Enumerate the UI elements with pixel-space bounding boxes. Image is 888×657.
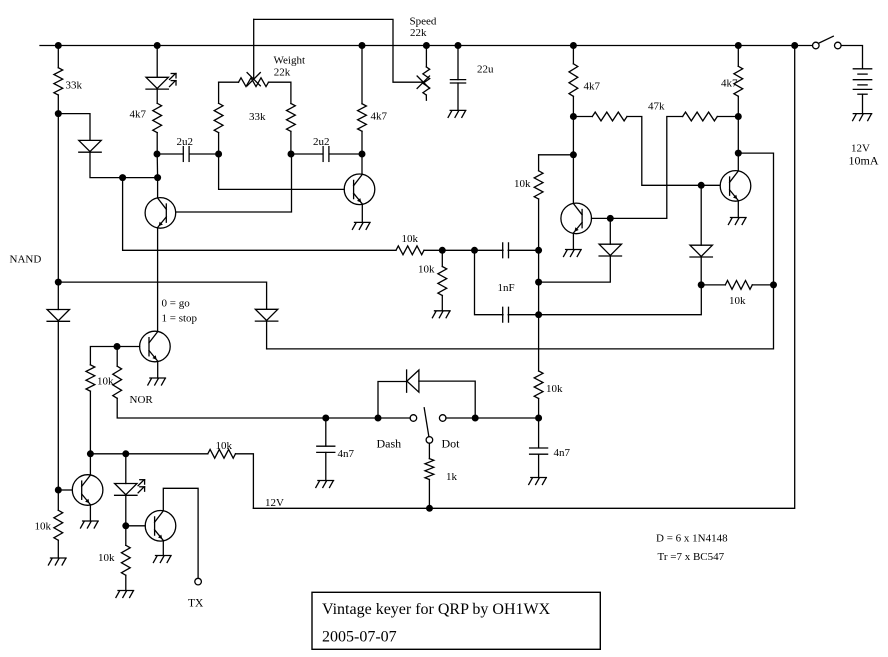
svg-text:10k: 10k <box>98 552 115 564</box>
svg-text:2u2: 2u2 <box>177 136 194 148</box>
svg-text:NOR: NOR <box>130 394 154 406</box>
svg-text:22u: 22u <box>477 64 494 76</box>
svg-text:10k: 10k <box>729 295 746 307</box>
svg-text:Tr =7 x BC547: Tr =7 x BC547 <box>658 551 725 563</box>
svg-text:4n7: 4n7 <box>554 447 571 459</box>
svg-text:12V: 12V <box>265 497 284 509</box>
svg-text:Dash: Dash <box>377 437 402 451</box>
svg-text:4k7: 4k7 <box>371 111 388 123</box>
svg-text:1k: 1k <box>446 471 458 483</box>
svg-text:2005-07-07: 2005-07-07 <box>322 629 397 646</box>
svg-text:10k: 10k <box>514 178 531 190</box>
svg-text:1 = stop: 1 = stop <box>162 313 198 325</box>
svg-text:Weight: Weight <box>274 55 306 67</box>
svg-text:10k: 10k <box>402 233 419 245</box>
svg-text:NAND: NAND <box>10 254 42 266</box>
svg-text:33k: 33k <box>249 111 266 123</box>
svg-text:10k: 10k <box>35 521 52 533</box>
svg-text:10k: 10k <box>418 264 435 276</box>
svg-text:4n7: 4n7 <box>338 448 355 460</box>
svg-text:Vintage keyer for QRP by OH1WX: Vintage keyer for QRP by OH1WX <box>322 601 551 618</box>
svg-text:10k: 10k <box>546 383 563 395</box>
svg-text:TX: TX <box>188 598 204 610</box>
svg-text:22k: 22k <box>274 67 291 79</box>
svg-text:4k7: 4k7 <box>584 81 601 93</box>
svg-text:1nF: 1nF <box>498 282 515 294</box>
svg-text:22k: 22k <box>410 27 427 39</box>
svg-text:33k: 33k <box>66 80 83 92</box>
svg-text:2u2: 2u2 <box>313 136 330 148</box>
svg-text:10mA: 10mA <box>849 154 879 168</box>
svg-text:4k7: 4k7 <box>721 78 738 90</box>
svg-text:Dot: Dot <box>442 437 461 451</box>
svg-text:0 = go: 0 = go <box>162 298 191 310</box>
svg-text:Speed: Speed <box>410 16 437 28</box>
svg-text:10k: 10k <box>97 376 114 388</box>
svg-text:4k7: 4k7 <box>130 109 147 121</box>
svg-text:10k: 10k <box>216 440 233 452</box>
svg-text:47k: 47k <box>648 101 665 113</box>
svg-text:D = 6 x 1N4148: D = 6 x 1N4148 <box>656 533 728 545</box>
